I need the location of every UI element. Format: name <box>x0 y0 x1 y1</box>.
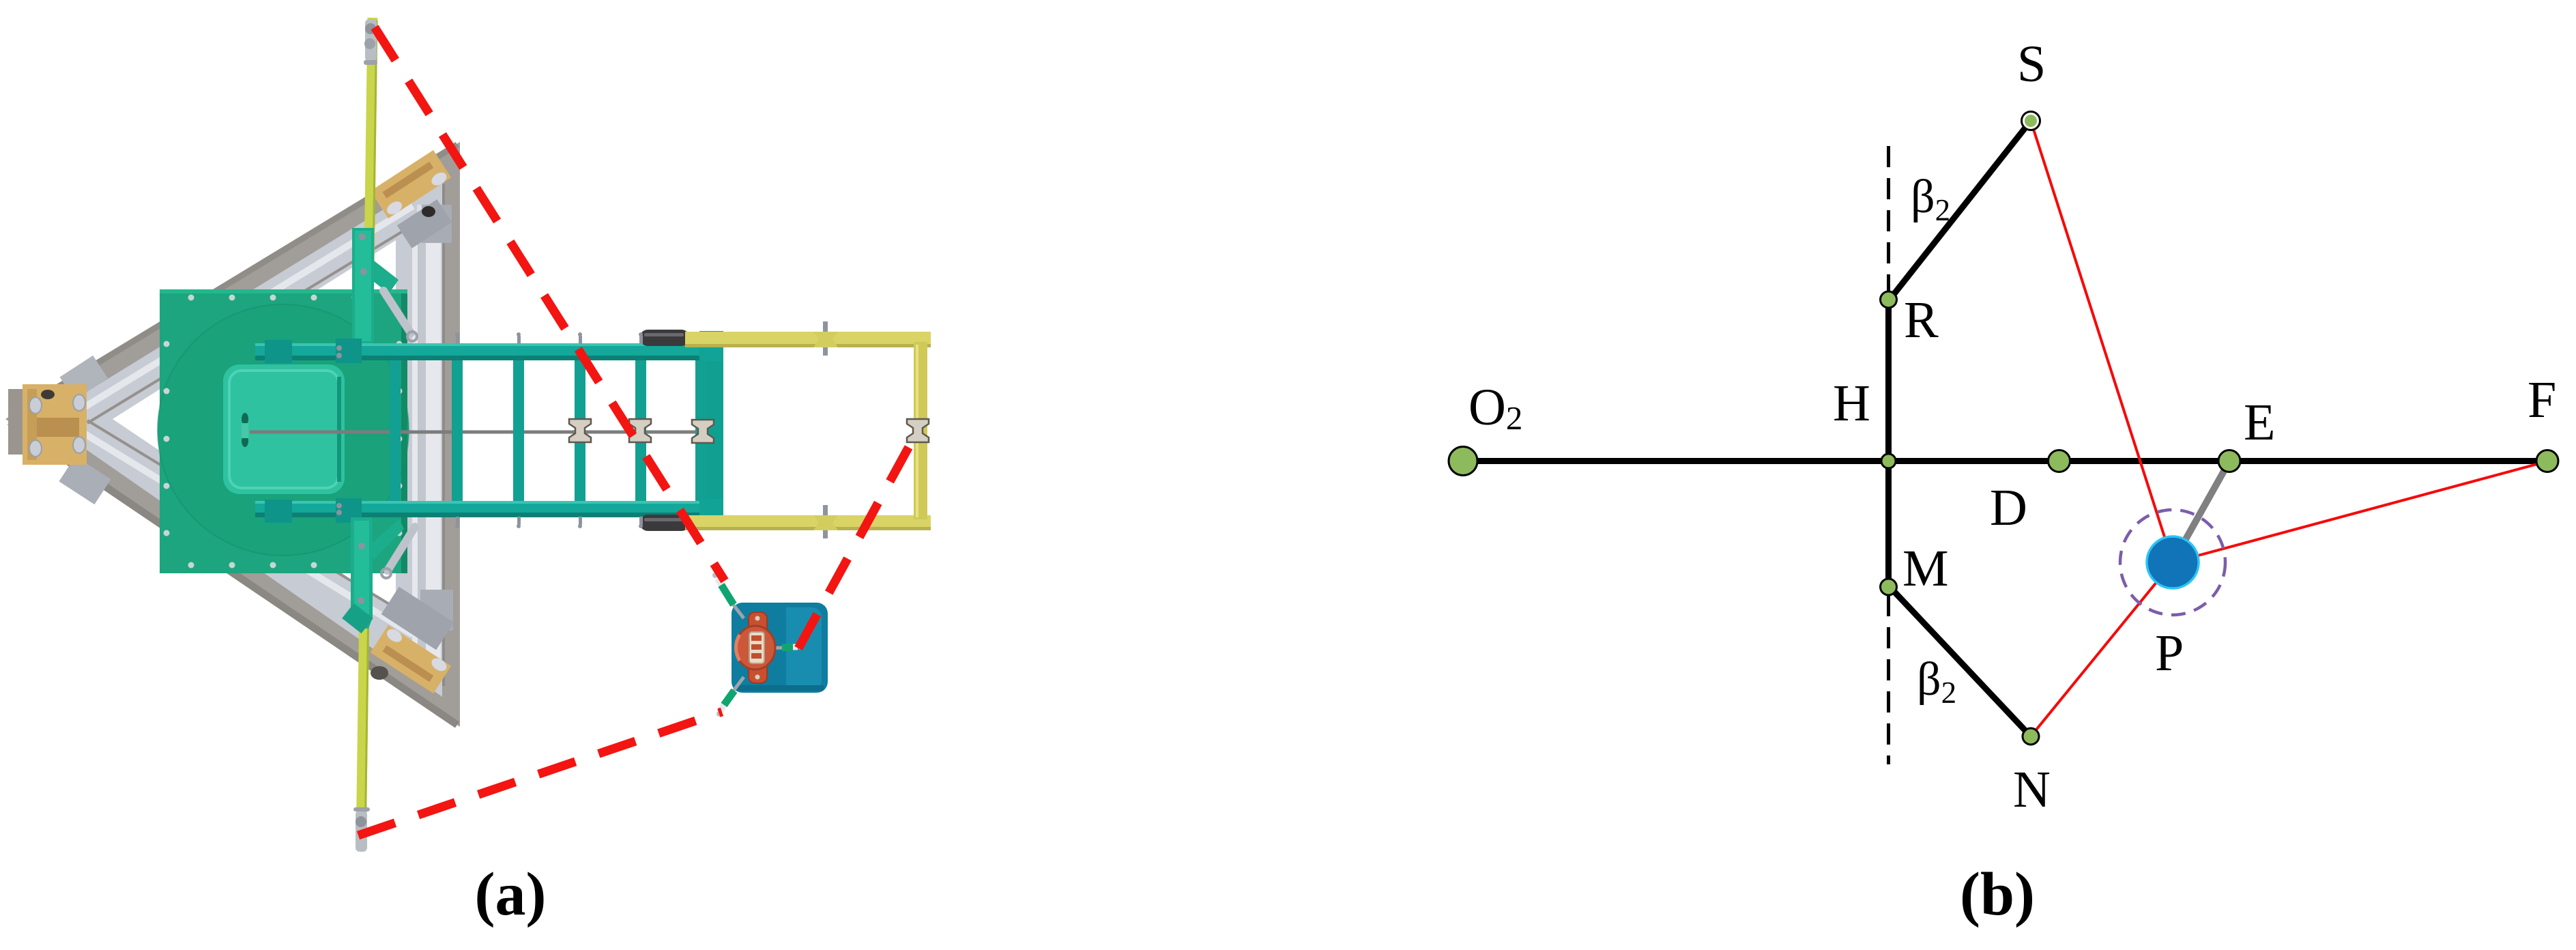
cable F-P <box>2173 461 2547 562</box>
workspace circle <box>2120 510 2225 615</box>
rail clamp blocks <box>265 340 292 363</box>
svg-text:N: N <box>2013 761 2051 818</box>
motor cylinder bottom <box>640 515 689 531</box>
boom end plate <box>706 347 723 517</box>
effector hub screws <box>755 616 760 621</box>
effector hub column (orange) <box>749 612 767 683</box>
frame right bar inner panel <box>412 225 441 669</box>
actuator bottom (silver) <box>388 527 415 571</box>
cable dashed C (right) <box>798 435 915 648</box>
mast rod top clevis <box>365 19 377 61</box>
dashed centerline <box>1887 146 1890 764</box>
clamp left bolts <box>29 394 85 457</box>
cable N-P <box>2031 562 2173 736</box>
mast rod bottom clevis <box>356 811 367 852</box>
yoke connector pins <box>823 321 828 538</box>
link R-S <box>1889 121 2031 301</box>
mast rod (yellow) <box>361 18 373 848</box>
yoke right bar (yellow) <box>914 342 927 519</box>
svg-text:(b): (b) <box>1960 861 2035 928</box>
effector hub bracket (cream) <box>749 632 764 663</box>
cable (gray) <box>250 431 715 434</box>
motor cylinder top <box>640 330 689 346</box>
pulley 2 <box>629 419 651 442</box>
mast bracket bottom <box>351 517 373 629</box>
node R <box>1881 291 1897 308</box>
yoke bottom rail (yellow) <box>685 515 931 530</box>
boom rungs <box>390 360 706 501</box>
rung pins <box>455 332 643 528</box>
platform plate <box>160 289 407 573</box>
effector hub (orange) <box>736 626 775 670</box>
boom bottom rail <box>255 501 723 517</box>
node O2 <box>1449 447 1477 476</box>
effector rod NW (teal) <box>721 585 734 605</box>
svg-text:R: R <box>1904 291 1939 349</box>
pulley 1 <box>569 419 591 442</box>
pulley 3 <box>692 420 714 443</box>
node N <box>2023 728 2039 745</box>
clamp bottom-right gray blocks <box>381 587 454 650</box>
clamp top-right tan plate <box>371 150 451 218</box>
pulley 4 (yoke bar) <box>907 419 929 442</box>
clamp top-right dark hole <box>422 206 435 217</box>
plate screws <box>164 295 403 568</box>
svg-text:M: M <box>1902 540 1949 597</box>
yoke top rail (yellow) <box>685 332 931 347</box>
corner cap left <box>8 389 37 455</box>
clamp left gray blocks <box>60 356 108 400</box>
effector rod SW (teal) <box>724 691 734 705</box>
gearbox green box <box>223 364 345 494</box>
svg-text:S: S <box>2017 35 2046 93</box>
rail clamp bolts <box>336 345 342 351</box>
plate edge shading <box>401 289 407 573</box>
effector link SW (gray) <box>732 677 744 693</box>
link E-P <box>2173 461 2229 562</box>
mast bracket top <box>352 228 399 345</box>
svg-text:(a): (a) <box>475 861 547 928</box>
actuator top (silver) <box>383 291 411 333</box>
end effector box (blue) <box>732 603 828 693</box>
frame highlight streaks <box>75 184 444 686</box>
gearbox handle <box>242 413 248 425</box>
clamp left tan plate <box>23 384 87 465</box>
node F <box>2536 450 2558 472</box>
effector link NW (gray) <box>730 601 744 618</box>
clamp top-right gray blocks <box>397 199 452 248</box>
effector rod E (teal) <box>782 647 793 648</box>
node H <box>1881 454 1896 468</box>
clamp bottom-right tan plate <box>371 625 451 693</box>
node E <box>2218 450 2240 472</box>
svg-text:P: P <box>2155 624 2184 682</box>
frame inner white cutout <box>113 240 396 609</box>
svg-text:E: E <box>2244 394 2275 451</box>
boom top rail <box>255 343 723 360</box>
clamp left dark hole <box>41 390 55 399</box>
cable dashed B (bottom) <box>358 712 722 835</box>
frame outer triangle <box>5 142 460 727</box>
link O2-F <box>1463 458 2547 464</box>
node S <box>2022 112 2040 130</box>
link R-M <box>1885 300 1892 587</box>
cable dashed A (top) <box>375 27 725 581</box>
node M <box>1881 579 1897 595</box>
node D <box>2049 450 2070 472</box>
effector link E (gray) <box>767 648 783 648</box>
frame light band <box>42 173 442 697</box>
link M-N <box>1889 586 2031 736</box>
end effector P <box>2147 536 2199 588</box>
cable S-P <box>2031 121 2173 562</box>
svg-text:D: D <box>1990 479 2027 536</box>
svg-text:F: F <box>2528 371 2556 429</box>
clamp bottom-right dark hole <box>371 666 388 680</box>
svg-text:H: H <box>1833 375 1870 432</box>
platform circle <box>158 304 409 556</box>
